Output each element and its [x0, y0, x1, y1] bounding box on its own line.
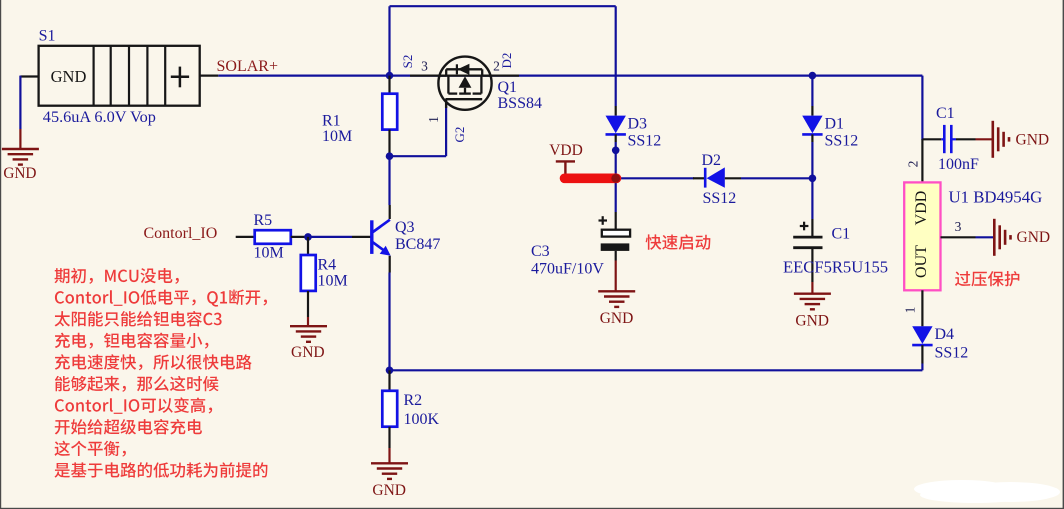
svg-text:Contorl_IO: Contorl_IO — [144, 225, 218, 242]
wire VDD node to C3 — [615, 178, 617, 212]
node junction main rail / R1 — [386, 72, 394, 80]
svg-text:D3: D3 — [628, 115, 648, 132]
ground right of C1 100nF — [991, 121, 994, 158]
svg-text:S1: S1 — [39, 28, 56, 45]
wire gate horizontal — [390, 155, 447, 157]
ground solar negative — [2, 148, 39, 150]
U1 pin 3 wire — [941, 236, 976, 238]
svg-text:3: 3 — [421, 59, 428, 74]
wire R1 bottom to gate node — [388, 156, 390, 205]
node junction R1 bottom / gate wire — [386, 152, 394, 160]
svg-text:GND: GND — [291, 344, 325, 361]
node junction VDD wire / C3 (highlighted) — [611, 174, 620, 183]
node junction main rail / D1 — [809, 72, 817, 80]
node junction D2 / D1 / C1 — [809, 175, 817, 183]
svg-text:1: 1 — [902, 307, 917, 314]
svg-text:R2: R2 — [404, 392, 423, 409]
svg-text:R1: R1 — [322, 113, 341, 130]
svg-text:Q3: Q3 — [395, 219, 415, 236]
diode D1 SS12 — [811, 106, 813, 116]
resistor R1 — [388, 76, 390, 94]
diode D3 SS12 — [615, 106, 617, 116]
svg-text:SS12: SS12 — [935, 344, 969, 361]
capacitor C1 100nF — [922, 138, 941, 140]
ground at U1 pin 3 — [993, 219, 996, 256]
ground below C1 supercap — [794, 293, 831, 295]
wire top bypass right vertical to D3 — [615, 6, 617, 106]
transistor Q3 NPN BC847 — [352, 236, 371, 238]
svg-text:470uF/10V: 470uF/10V — [531, 261, 604, 278]
svg-text:GND: GND — [1017, 229, 1051, 246]
wire SOLAR+ main horizontal — [218, 74, 922, 76]
wire bottom rail horizontal — [390, 369, 923, 371]
svg-text:GND: GND — [372, 482, 406, 499]
svg-text:C3: C3 — [531, 243, 550, 260]
svg-text:S2: S2 — [400, 55, 415, 69]
svg-text:GND: GND — [51, 67, 87, 86]
wire main rail corner down to pin2 node — [921, 76, 923, 140]
resistor R5 — [255, 230, 291, 244]
ground below R2 — [371, 462, 408, 464]
svg-text:2: 2 — [905, 161, 920, 168]
wire Q3 emitter to bottom rail — [388, 273, 390, 371]
svg-text:U1 BD4954G: U1 BD4954G — [949, 188, 1043, 207]
svg-text:D2: D2 — [702, 152, 722, 169]
svg-text:SOLAR+: SOLAR+ — [217, 58, 278, 75]
svg-text:10M: 10M — [254, 245, 284, 262]
wire VDD node to D2 — [616, 177, 694, 179]
node junction R5 / R4 / Q3 base — [304, 233, 312, 241]
wire top bypass horizontal — [390, 5, 616, 7]
diode D4 SS12 — [912, 326, 932, 344]
node junction emitter / bottom rail / R2 — [386, 367, 394, 375]
svg-text:GND: GND — [795, 312, 829, 329]
S1 plus sign — [171, 76, 189, 79]
svg-text:10M: 10M — [322, 128, 352, 145]
resistor R4 — [307, 237, 309, 255]
U1 pin 1 lead — [921, 290, 923, 326]
capacitor C3 470uF/10V polarized — [615, 212, 617, 231]
svg-text:EECF5R5U155: EECF5R5U155 — [783, 257, 888, 276]
svg-text:VDD: VDD — [549, 142, 583, 159]
node junction D3 cathode — [612, 147, 620, 155]
wire R5 junction to Q3 base — [308, 236, 352, 238]
wire D2 to D1/C1 node — [741, 177, 812, 179]
svg-text:100K: 100K — [404, 411, 440, 428]
ground below R4 — [290, 325, 327, 327]
capacitor C1 EECF5R5U155 supercap — [811, 219, 813, 237]
svg-text:BC847: BC847 — [395, 236, 440, 253]
svg-text:Q1: Q1 — [498, 79, 518, 96]
S1 left pin — [20, 75, 38, 77]
svg-text:100nF: 100nF — [938, 156, 979, 173]
svg-text:SS12: SS12 — [703, 190, 737, 207]
S1 right pin — [200, 74, 219, 76]
wire top bypass left vertical — [388, 6, 390, 75]
ground below C3 — [598, 290, 635, 292]
wire Contorl_IO stub — [236, 236, 255, 238]
svg-text:45.6uA 6.0V Vop: 45.6uA 6.0V Vop — [43, 107, 156, 126]
svg-text:C1: C1 — [832, 226, 851, 243]
svg-text:R4: R4 — [318, 256, 337, 273]
annotation text fast start — [646, 234, 711, 249]
wire bottom rail up to D4 — [921, 364, 923, 371]
svg-text:BSS84: BSS84 — [498, 95, 542, 112]
svg-text:3: 3 — [955, 219, 962, 234]
svg-text:D4: D4 — [935, 326, 955, 343]
svg-text:D2: D2 — [499, 53, 514, 69]
solar cell S1 — [39, 46, 200, 106]
svg-text:10M: 10M — [318, 272, 348, 289]
svg-text:1: 1 — [426, 116, 441, 123]
svg-text:GND: GND — [1016, 132, 1050, 149]
svg-text:G2: G2 — [452, 127, 467, 143]
svg-text:SS12: SS12 — [628, 132, 662, 149]
svg-text:GND: GND — [600, 310, 634, 327]
white smudge bottom right — [914, 480, 1060, 503]
transistor Q1 P-MOSFET BSS84 — [438, 57, 491, 110]
svg-text:R5: R5 — [254, 212, 273, 229]
wire D3 cathode to VDD node — [615, 142, 617, 178]
svg-text:VDD: VDD — [913, 191, 930, 226]
svg-text:C1: C1 — [936, 105, 955, 122]
wire D1 cathode to C1 node — [811, 142, 813, 178]
annotation text overvoltage protect — [955, 271, 1019, 286]
svg-text:D1: D1 — [825, 115, 845, 132]
svg-text:GND: GND — [3, 165, 36, 182]
diode D2 SS12 — [693, 177, 706, 179]
svg-text:SS12: SS12 — [825, 132, 859, 149]
highlighted VDD wire segment — [565, 174, 617, 184]
wire solar negative down — [19, 76, 21, 129]
svg-text:OUT: OUT — [913, 245, 930, 278]
wire gate vertical — [445, 104, 447, 156]
wire C1 node down to C1 plus — [811, 178, 813, 219]
IC U1 BD4954G — [921, 139, 923, 182]
wire main rail down to D1 — [811, 76, 813, 106]
annotation paragraph red — [55, 268, 179, 284]
resistor R2 — [388, 370, 390, 391]
